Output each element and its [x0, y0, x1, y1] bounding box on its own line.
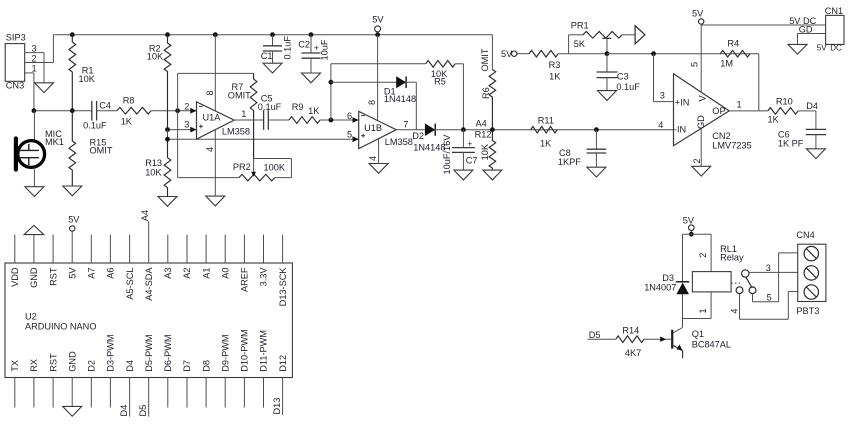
- svg-text:8: 8: [367, 100, 377, 105]
- value R13 10K: [145, 168, 162, 178]
- label RL1: [720, 244, 737, 254]
- value R7 OMIT: [228, 90, 251, 100]
- junction pin2 feedback: [175, 108, 180, 113]
- junction rail R2: [165, 32, 170, 37]
- wire D2 to A4 node: [435, 129, 674, 131]
- net label D5 U2: [138, 405, 148, 417]
- label R11: [538, 116, 554, 126]
- value R5 10K: [431, 69, 448, 79]
- svg-text:3: 3: [184, 120, 189, 130]
- svg-text:TX: TX: [10, 360, 20, 372]
- svg-text:100K: 100K: [264, 163, 286, 173]
- svg-text:PR1: PR1: [571, 21, 589, 31]
- svg-text:C2: C2: [298, 40, 310, 50]
- wire 5V to R3: [517, 53, 529, 55]
- svg-text:C3: C3: [617, 71, 629, 81]
- value D2 1N4148: [413, 142, 445, 152]
- pin 3 label CN3: [32, 44, 37, 54]
- resistor R12: [489, 130, 496, 170]
- label CN3: [6, 80, 24, 90]
- svg-text:D4: D4: [806, 101, 818, 111]
- svg-text:R6: R6: [481, 87, 491, 99]
- label R8: [123, 95, 135, 105]
- pin number 7 U1B: [403, 119, 408, 129]
- label U1B: [364, 123, 382, 133]
- net label D4 U2: [119, 405, 129, 417]
- pin GND bottom U2: [67, 351, 77, 406]
- svg-text:7: 7: [403, 119, 408, 129]
- ground C6: [806, 149, 825, 159]
- value D1 1N4148: [384, 94, 416, 104]
- microphone MK1: [16, 111, 45, 187]
- svg-text:A3: A3: [163, 268, 173, 279]
- wire D3 branch: [682, 234, 684, 282]
- svg-text:R5: R5: [434, 76, 446, 86]
- svg-text:3: 3: [766, 263, 771, 273]
- svg-text:3: 3: [660, 91, 665, 101]
- svg-text:A0: A0: [220, 268, 230, 279]
- pin number 1 RL1: [698, 308, 708, 313]
- label +IN: [675, 97, 690, 107]
- wire contact 5 to CN4: [753, 253, 798, 302]
- svg-text:1: 1: [241, 109, 246, 119]
- pin number 5 U1B: [347, 130, 352, 140]
- svg-text:LM358: LM358: [222, 126, 250, 136]
- svg-text:GD: GD: [799, 25, 813, 35]
- svg-text:LMV7235: LMV7235: [712, 141, 751, 151]
- svg-text:CN1: CN1: [825, 6, 843, 16]
- junction rail U1A pin8: [213, 32, 218, 37]
- wire C3 node to R4 node: [607, 53, 759, 55]
- wire R3 to C3 node: [558, 53, 607, 55]
- svg-text:D3-PWM: D3-PWM: [106, 334, 116, 371]
- resistor R1: [69, 35, 76, 111]
- svg-text:5: 5: [347, 130, 352, 140]
- wire node to D1 R5 vertical: [330, 64, 332, 120]
- svg-text:0.1uF: 0.1uF: [282, 36, 292, 60]
- svg-text:ARDUINO NANO: ARDUINO NANO: [25, 321, 96, 331]
- svg-text:3.3V: 3.3V: [259, 267, 269, 287]
- svg-text:C4: C4: [99, 100, 111, 110]
- pin 2 label CN3: [32, 53, 37, 63]
- svg-text:1K: 1K: [308, 106, 320, 116]
- ground GND bottom U2: [63, 406, 82, 416]
- svg-text:OMIT: OMIT: [90, 146, 113, 156]
- value CN2 LMV7235: [712, 141, 751, 151]
- arrow into U1A pin3: [190, 127, 196, 133]
- svg-text:6: 6: [347, 111, 352, 121]
- label R7: [232, 82, 244, 92]
- label C4: [99, 100, 111, 110]
- value Q1 BC847AL: [692, 339, 731, 349]
- pin D11-PWM bottom U2: [259, 330, 269, 407]
- wire bias node to U1B pin5: [168, 130, 359, 140]
- svg-text:D3: D3: [662, 273, 674, 283]
- relay throw contact 4: [736, 287, 743, 294]
- svg-text:5V: 5V: [817, 44, 827, 53]
- power terminal 5V U1B: [372, 14, 384, 32]
- pin D8 bottom U2: [201, 360, 211, 408]
- svg-text:U1A: U1A: [203, 113, 222, 123]
- arrow into U1B pin5: [353, 136, 359, 142]
- label R4: [727, 38, 739, 48]
- svg-text:A4: A4: [140, 210, 150, 221]
- svg-text:R11: R11: [538, 116, 554, 126]
- wire pin2 to PR2 left: [178, 177, 239, 179]
- pin 5V top U2: [67, 231, 77, 279]
- op-amp U1B: [359, 111, 397, 148]
- power terminal 5V U2: [68, 214, 80, 231]
- svg-text:5V: 5V: [692, 8, 704, 18]
- label Relay: [720, 252, 744, 262]
- svg-text:1K: 1K: [549, 72, 561, 82]
- capacitor C4: [92, 101, 97, 121]
- net label D4: [806, 101, 818, 111]
- arrow into Q1 base: [660, 337, 666, 342]
- label R10: [776, 96, 793, 106]
- ground C2: [302, 73, 321, 83]
- svg-text:1: 1: [737, 99, 742, 109]
- label PR2: [233, 162, 251, 172]
- pin number 5 CN2: [690, 62, 700, 67]
- svg-text:RST: RST: [48, 267, 58, 286]
- wire relay bottom rail: [683, 318, 712, 320]
- svg-text:D5: D5: [589, 330, 601, 340]
- svg-text:D5-PWM: D5-PWM: [144, 334, 154, 371]
- arrow into U1A pin2: [190, 108, 196, 114]
- svg-text:RST: RST: [48, 353, 58, 372]
- label R1: [82, 66, 94, 76]
- svg-text:1N4148: 1N4148: [384, 94, 416, 104]
- junction rail 5V terminal: [375, 32, 380, 37]
- pin 1 label CN3: [32, 63, 37, 73]
- svg-text:10uF/16V: 10uF/16V: [442, 134, 452, 175]
- value R11 1K: [540, 139, 552, 149]
- svg-text:PR2: PR2: [233, 162, 251, 172]
- value R8 1K: [121, 117, 133, 127]
- pin number 2 CN2: [692, 158, 702, 163]
- label R15: [90, 138, 107, 148]
- label C6: [778, 129, 790, 139]
- svg-text:0.1uF: 0.1uF: [258, 102, 282, 112]
- label C1: [261, 51, 273, 61]
- pin number 8 U1B: [367, 100, 377, 105]
- svg-text:0.1uF: 0.1uF: [616, 82, 640, 92]
- wire U1A pin1 to C5: [234, 119, 263, 121]
- value C3 0.1uF: [616, 82, 640, 92]
- svg-text:D11-PWM: D11-PWM: [259, 330, 269, 372]
- pin number 1 CN2: [737, 99, 742, 109]
- svg-text:10K: 10K: [79, 74, 96, 84]
- svg-text:C1: C1: [261, 51, 273, 61]
- value R4 1M: [720, 58, 733, 68]
- label D2: [412, 131, 424, 141]
- pin A4-SDA top U2: [144, 221, 154, 301]
- power terminal 5V relay: [683, 215, 695, 230]
- svg-text:CN4: CN4: [796, 230, 814, 240]
- svg-text:RX: RX: [29, 359, 39, 372]
- svg-text:D7: D7: [182, 360, 192, 372]
- wire feedback top: [178, 72, 254, 74]
- pin A7 top U2: [87, 235, 97, 279]
- ground C8: [587, 167, 606, 177]
- junction D1 anode: [329, 80, 334, 85]
- svg-text:2: 2: [692, 158, 702, 163]
- label LM358 U1B: [385, 137, 413, 147]
- capacitor C8: [587, 130, 607, 168]
- wire CN2 output: [729, 110, 768, 112]
- wire relay top rail: [683, 233, 712, 235]
- svg-text:CN2: CN2: [712, 131, 730, 141]
- wire R5 right: [455, 64, 463, 130]
- pin number 3 U1A: [184, 120, 189, 130]
- label V pin5: [697, 95, 707, 102]
- pin D4 bottom U2: [125, 360, 135, 417]
- svg-text:1M: 1M: [720, 58, 733, 68]
- op-amp U1A: [197, 102, 235, 139]
- pin number 1 U1A: [241, 109, 246, 119]
- pin number 3 CN2: [660, 91, 665, 101]
- junction bias node: [165, 137, 170, 142]
- wire R4 to output: [758, 54, 760, 111]
- connector CN1 body: [826, 15, 844, 44]
- svg-text:U1B: U1B: [364, 123, 382, 133]
- svg-text:R13: R13: [145, 158, 162, 168]
- wire U1B pin8 to 5V: [377, 35, 379, 121]
- pin A6 top U2: [106, 235, 116, 279]
- svg-text:D4: D4: [125, 360, 135, 372]
- arrow PR1 adjust: [635, 26, 645, 44]
- wire U1A pin4 to ground: [214, 130, 216, 196]
- junction rail R1: [70, 32, 75, 37]
- IC U2 Arduino Nano body: [5, 263, 292, 378]
- label R9: [292, 102, 304, 112]
- ground C1: [263, 63, 282, 73]
- junction PR1 wiper node: [605, 51, 610, 56]
- label C3: [617, 71, 629, 81]
- wire C4 to R8: [97, 110, 117, 112]
- power flag GND top U2: [24, 225, 44, 234]
- value R12 10K: [480, 143, 490, 160]
- label D3: [662, 273, 674, 283]
- pin number 4 U1B: [368, 156, 378, 161]
- wire 5V to relay top: [690, 231, 692, 235]
- svg-text:GD: GD: [696, 115, 706, 129]
- wire 5V to CN1: [701, 24, 825, 26]
- svg-text:1KPF: 1KPF: [558, 157, 581, 167]
- pin D7 bottom U2: [182, 360, 192, 408]
- junction C8 node: [594, 127, 599, 132]
- resistor R15: [69, 111, 76, 186]
- svg-text:D4: D4: [119, 405, 129, 417]
- resistor R7: [250, 73, 257, 158]
- svg-text:VDD: VDD: [10, 267, 20, 287]
- svg-text:1K: 1K: [121, 117, 133, 127]
- svg-text:2: 2: [32, 53, 37, 63]
- svg-text:R8: R8: [123, 95, 135, 105]
- wire CN3 pin1 to mic node: [25, 73, 34, 111]
- resistor R6: [489, 70, 496, 130]
- wire U1A pin8 to rail: [214, 35, 216, 111]
- label CN1: [825, 6, 843, 16]
- wire R14 to Q1 base: [644, 338, 672, 340]
- svg-text:R12: R12: [475, 129, 492, 139]
- wire branch to CN2 plus: [654, 54, 674, 102]
- svg-text:1K PF: 1K PF: [778, 138, 804, 148]
- ground U1B pin4: [369, 164, 388, 174]
- wire mic row: [34, 110, 92, 112]
- net label A4: [476, 119, 487, 129]
- svg-text:R9: R9: [292, 102, 304, 112]
- svg-text:SIP3: SIP3: [6, 33, 26, 43]
- svg-text:5V: 5V: [68, 214, 80, 224]
- junction rail C1: [270, 32, 275, 37]
- pin number 2 U1A: [184, 101, 189, 111]
- capacitor C7: [452, 130, 475, 170]
- diode D1: [396, 76, 406, 88]
- ground R12: [483, 170, 502, 180]
- resistor R5: [426, 61, 455, 68]
- label SIP3: [6, 33, 26, 43]
- svg-text:A1: A1: [201, 268, 211, 279]
- pin number 5 contact: [767, 293, 772, 303]
- svg-text:R14: R14: [622, 325, 639, 335]
- pin D13-SCK top U2: [278, 235, 288, 307]
- svg-text:GND: GND: [67, 351, 77, 372]
- svg-text:4: 4: [729, 309, 739, 314]
- label C2: [298, 40, 310, 50]
- capacitor C6: [806, 129, 826, 148]
- junction C7 node: [461, 127, 466, 132]
- ground C3: [598, 91, 617, 101]
- wire R5 top: [331, 63, 426, 65]
- connector CN4 terminal block: [798, 244, 826, 301]
- svg-text:5V: 5V: [67, 267, 77, 279]
- value C1 0.1uF: [282, 36, 292, 60]
- wire U1B pin7 out: [396, 129, 425, 131]
- pin A3 top U2: [163, 235, 173, 279]
- ground U1A pin4: [206, 196, 225, 206]
- wire D1 cathode to output: [406, 82, 416, 130]
- wire CN1 GD to ground: [798, 34, 826, 45]
- ground CN1: [788, 44, 807, 54]
- svg-text:Relay: Relay: [720, 252, 744, 262]
- svg-text:Q1: Q1: [692, 329, 704, 339]
- pin VDD top U2: [10, 235, 20, 287]
- capacitor C1: [263, 35, 282, 64]
- svg-text:1K: 1K: [768, 115, 780, 125]
- label D1: [384, 87, 396, 97]
- wire R9 to U1B pin6: [320, 119, 359, 121]
- label R6: [481, 87, 491, 99]
- svg-text:A7: A7: [87, 268, 97, 279]
- svg-text:OMIT: OMIT: [480, 48, 490, 71]
- svg-text:D13: D13: [272, 398, 282, 415]
- value PR1 5K: [574, 39, 586, 49]
- relay blade: [746, 277, 752, 288]
- svg-text:D6-PWM: D6-PWM: [163, 334, 173, 371]
- label R14: [622, 325, 639, 335]
- pin D9-PWM bottom U2: [220, 334, 230, 407]
- ground CN3 pin3: [35, 83, 54, 93]
- label CN4: [796, 230, 814, 240]
- label R5: [434, 76, 446, 86]
- svg-text:LM358: LM358: [385, 137, 413, 147]
- relay throw contact 5: [749, 287, 756, 294]
- svg-text:R3: R3: [549, 60, 561, 70]
- label PBT3: [796, 306, 819, 316]
- pin number 4 U1A: [205, 147, 215, 152]
- value R1 10K: [79, 74, 96, 84]
- value C6 1K PF: [778, 138, 804, 148]
- svg-text:0.1uF: 0.1uF: [83, 120, 107, 130]
- svg-text:R10: R10: [776, 96, 793, 106]
- svg-text:D9-PWM: D9-PWM: [220, 334, 230, 371]
- value R14 4K7: [625, 348, 641, 358]
- pin number 6 U1B: [347, 111, 352, 121]
- pin number 3 contact: [766, 263, 771, 273]
- svg-text:MK1: MK1: [45, 137, 64, 147]
- value R15 OMIT: [90, 146, 113, 156]
- svg-text:1N4007: 1N4007: [644, 283, 676, 293]
- svg-text:1: 1: [32, 63, 37, 73]
- net label 5V DC: [789, 16, 816, 26]
- svg-text:D2: D2: [412, 131, 424, 141]
- value D3 1N4007: [644, 283, 676, 293]
- value R2 10K: [147, 51, 164, 61]
- ground R13: [158, 197, 177, 207]
- wire rail corner to R6: [491, 35, 493, 70]
- value C2 10uF: [320, 39, 330, 60]
- junction mic node R1: [70, 108, 75, 113]
- label C5: [261, 93, 273, 103]
- value R9 1K: [308, 106, 320, 116]
- net label D13 U2: [272, 398, 282, 415]
- value R3 1K: [549, 72, 561, 82]
- wire contact 4 to CN4: [740, 292, 798, 320]
- svg-text:GND: GND: [29, 267, 39, 288]
- wire PR1 left leg: [569, 35, 583, 54]
- value R6 OMIT: [480, 48, 490, 71]
- junction R9 node: [329, 118, 334, 123]
- svg-text:D2: D2: [87, 360, 97, 372]
- pin number 4 CN2: [658, 120, 663, 130]
- resistor R13: [164, 139, 171, 196]
- pin D3-PWM bottom U2: [106, 334, 116, 407]
- svg-text:D5: D5: [138, 405, 148, 417]
- label OP: [712, 106, 725, 116]
- value C8 1KPF: [558, 157, 581, 167]
- label ARDUINO NANO: [25, 321, 96, 331]
- svg-text:AREF: AREF: [240, 267, 250, 292]
- wire CN3 pin3 to ground: [25, 53, 44, 83]
- resistor R2: [164, 35, 171, 130]
- pin number 4 contact: [729, 309, 739, 314]
- wire R8 to U1A pin2: [151, 110, 197, 112]
- pin label DC CN1: [830, 44, 842, 53]
- junction mic node pin1: [32, 108, 37, 113]
- svg-text:R4: R4: [727, 38, 739, 48]
- label R3: [549, 60, 561, 70]
- svg-text:D10-PWM: D10-PWM: [240, 329, 250, 371]
- pin D6-PWM bottom U2: [163, 334, 173, 407]
- svg-text:D8: D8: [201, 360, 211, 372]
- relay pole contact: [742, 270, 749, 277]
- svg-text:10K: 10K: [145, 168, 162, 178]
- wire R10 to D4 net: [798, 111, 816, 129]
- svg-text:1K: 1K: [540, 139, 552, 149]
- svg-text:CN3: CN3: [6, 80, 24, 90]
